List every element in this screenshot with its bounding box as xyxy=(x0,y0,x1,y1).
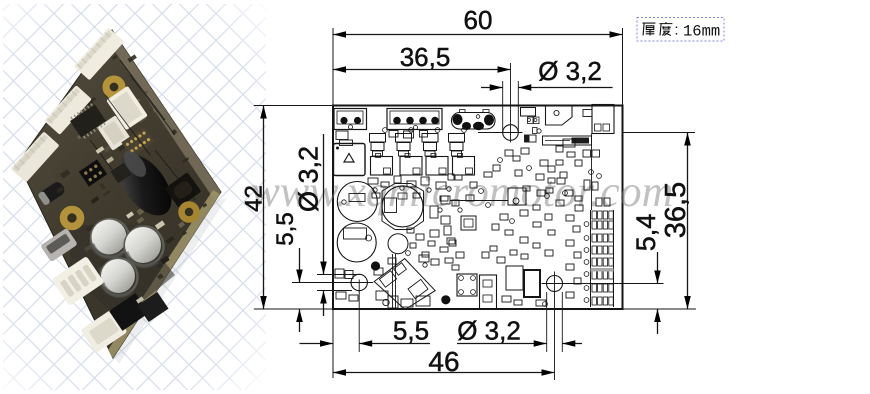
trace line to U4 xyxy=(450,200,508,202)
black dot B xyxy=(441,295,450,304)
svg-text:5,5: 5,5 xyxy=(393,316,429,346)
svg-text:36,5: 36,5 xyxy=(400,42,451,72)
component D1 pentagon xyxy=(546,106,573,126)
bottom-left diagonal cluster xyxy=(374,259,435,310)
photo micro-usb xyxy=(40,228,78,262)
hole top centerline horizontal xyxy=(478,132,502,134)
photo dark patch under caps xyxy=(70,225,175,320)
right edge small parts xyxy=(596,198,602,206)
switch S1 top xyxy=(452,113,496,130)
capacitor C2 big circle xyxy=(337,223,376,262)
photo white connector bottom 1 xyxy=(52,256,105,306)
photo trace lines xyxy=(90,60,195,200)
left small pads near hole xyxy=(335,269,344,278)
dimension 42 xyxy=(263,106,265,310)
connector bottom-middle xyxy=(480,275,497,309)
photo white edge connector 3 xyxy=(10,131,59,182)
board outline xyxy=(333,106,623,310)
dimension diameter 3,2 top xyxy=(481,87,503,89)
vertical trace line right xyxy=(591,134,593,211)
middle scattered parts xyxy=(368,178,378,184)
right connector strip xyxy=(590,210,592,307)
photo gold ring top xyxy=(106,79,122,95)
dimension 5,5 bottom xyxy=(300,343,334,345)
photo pin header gold xyxy=(121,127,154,158)
transistor footprints row xyxy=(383,128,388,133)
photo gold ring right xyxy=(182,205,197,220)
extra right-middle parts xyxy=(556,146,563,152)
photo white JST connector xyxy=(106,86,148,130)
capacitor C3 big circle with octagon xyxy=(382,184,424,230)
dimension 36,5 right xyxy=(687,133,689,310)
photo white JST connector 2 xyxy=(97,115,131,151)
connector slot bar xyxy=(543,136,592,145)
photo silver capacitor 3 xyxy=(101,259,138,296)
component with 4 corner circles xyxy=(457,274,477,296)
more bottom-middle parts xyxy=(407,228,414,233)
photo white edge connector 2 xyxy=(44,85,92,135)
big component U3 with triangle xyxy=(334,144,366,176)
photo silver capacitor 1 xyxy=(91,219,129,257)
hole bottom-right xyxy=(547,276,563,292)
dimension 36,5 top xyxy=(333,69,511,71)
connector J1 top-left xyxy=(334,109,367,130)
vertical line pair below C4 xyxy=(392,254,394,308)
capacitor C4 medium circle xyxy=(388,234,408,254)
photo black electrolytic capacitor xyxy=(108,145,182,225)
glyph hou xyxy=(643,23,656,35)
dimension 46 xyxy=(333,372,555,374)
photo tiny parts xyxy=(96,146,105,154)
photo IC chip U1 xyxy=(68,102,107,140)
small circle near cluster xyxy=(383,299,389,305)
glyph du xyxy=(660,22,673,35)
circle near slot xyxy=(537,129,541,133)
capacitor C1 big circle xyxy=(337,182,377,222)
photo white connector bottom 2 xyxy=(80,309,127,353)
photo board mottle texture xyxy=(60,54,207,295)
hole top xyxy=(503,125,519,141)
svg-text:Ø 3,2: Ø 3,2 xyxy=(538,56,602,86)
block top-right xyxy=(592,105,614,134)
dimension 60 xyxy=(333,34,623,36)
black dot A xyxy=(371,261,380,270)
svg-text:Ø 3,2: Ø 3,2 xyxy=(457,316,521,346)
svg-text:5,4: 5,4 xyxy=(631,214,661,252)
dimension 42 extension lines xyxy=(254,105,333,107)
thick box bottom-middle xyxy=(524,270,540,297)
PCB photo board xyxy=(18,30,221,358)
photo drop shadow xyxy=(106,198,227,364)
photo small chip a xyxy=(110,163,131,184)
svg-text:5,5: 5,5 xyxy=(272,212,299,245)
photo smd inductor right xyxy=(165,172,202,208)
square with inner rect xyxy=(461,216,476,230)
photo black part bottom right xyxy=(137,292,168,322)
svg-text:60: 60 xyxy=(464,5,493,35)
photo board lit top-right edge xyxy=(108,30,221,201)
photo white edge connector 1 xyxy=(74,28,124,81)
dimension 60 extension lines xyxy=(332,28,334,106)
dimension diameter 3,2 left xyxy=(317,274,360,276)
right-middle scattered parts xyxy=(505,150,513,156)
small rect near pentagon xyxy=(583,110,592,117)
dimension diameter 3,2 bottom xyxy=(457,343,547,345)
hole bottom-left xyxy=(351,274,367,290)
connector J2 top xyxy=(387,109,442,130)
photo black cylinder left xyxy=(37,180,66,206)
bottom small parts xyxy=(502,296,511,302)
dimension 5,5 left xyxy=(292,282,350,284)
svg-text:36,5: 36,5 xyxy=(660,182,692,238)
photo silver capacitor 2 xyxy=(125,227,164,266)
svg-text::: : xyxy=(674,22,678,39)
svg-text:46: 46 xyxy=(428,346,459,377)
photo backdrop lattice xyxy=(3,4,266,390)
svg-text:16mm: 16mm xyxy=(683,23,720,41)
top hole centerline vertical xyxy=(510,63,512,143)
dimension 5,4 right xyxy=(623,283,664,285)
svg-text:42: 42 xyxy=(241,185,268,212)
power FET squares row xyxy=(371,157,393,176)
photo black inductor bottom xyxy=(109,293,149,331)
photo board bottom-right edge strip xyxy=(108,190,220,358)
bottom extension lines xyxy=(332,309,334,378)
photo gold ring left xyxy=(64,210,81,227)
component U2 right of switch xyxy=(521,108,536,117)
svg-text:Ø 3,2: Ø 3,2 xyxy=(294,146,324,212)
thickness label 16mm xyxy=(637,18,724,42)
photo header 2x3 xyxy=(79,159,107,186)
dimension 36,5 right extension lines xyxy=(623,132,696,134)
